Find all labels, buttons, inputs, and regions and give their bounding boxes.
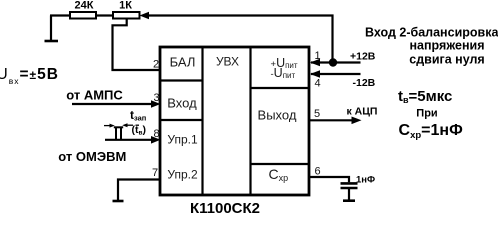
svg-text:БАЛ: БАЛ (170, 55, 196, 70)
svg-text:Uвх=±5В: Uвх=±5В (0, 66, 59, 86)
IC U1 К1100СК2 outline (160, 47, 309, 195)
svg-text:-12В: -12В (353, 77, 376, 89)
svg-text:от АМПС: от АМПС (66, 88, 123, 103)
IC divider: Вход / Упр (160, 119, 203, 121)
IC divider: Uпит / Выход (251, 87, 310, 89)
svg-text:1нФ: 1нФ (356, 174, 375, 185)
svg-text:К1100СК2: К1100СК2 (190, 200, 260, 216)
svg-text:При: При (416, 108, 437, 120)
arrowhead into pin 4 (310, 70, 320, 78)
IC divider: left column (201, 47, 203, 195)
svg-text:напряжения: напряжения (410, 38, 485, 52)
pulse width marker arrows (104, 123, 139, 127)
wire: RP1 wiper to +Uпит junction (top rail) (148, 16, 333, 63)
svg-text:4: 4 (314, 78, 320, 90)
pulse waveform symbol (114, 127, 123, 140)
wire: pin 7 to ground (118, 180, 160, 201)
svg-text:24К: 24К (75, 0, 94, 12)
wire: pin 3 input from АМПС (72, 103, 153, 105)
wire: R1 to potentiometer RP1 (96, 14, 113, 16)
svg-text:Упр.2: Упр.2 (167, 168, 198, 182)
ground GND3 (capacitor) (343, 199, 355, 202)
svg-text:к АЦП: к АЦП (347, 106, 378, 118)
ground GND1 (top-left) (45, 16, 59, 42)
svg-text:2: 2 (153, 59, 159, 71)
svg-text:от ОМЭВМ: от ОМЭВМ (58, 149, 126, 164)
ground GND2 (pin 7) (113, 200, 124, 203)
svg-text:Упр.1: Упр.1 (167, 133, 198, 147)
IC divider: Выход / Схр (251, 163, 310, 165)
arrowhead into pin 8 (151, 136, 161, 144)
capacitor C1 1нФ (341, 183, 358, 200)
svg-text:6: 6 (314, 166, 320, 178)
svg-text:Схр=1нФ: Схр=1нФ (399, 122, 464, 141)
wire: pin 1 +12V supply (311, 61, 361, 63)
svg-text:7: 7 (152, 167, 158, 179)
resistor R1 24К (70, 12, 96, 19)
wire: pin 8 input from ОМЭВМ (105, 139, 153, 141)
wire: pin 5 output to ADC (309, 119, 353, 121)
potentiometer RP1 1К (113, 12, 140, 19)
wire: GND1 to resistor R1 (50, 14, 70, 16)
svg-text:УВХ: УВХ (216, 55, 239, 69)
wire: pin 6 to hold capacitor (309, 177, 349, 182)
arrowhead to АЦП (352, 117, 362, 125)
IC divider: БАЛ / Вход (160, 79, 203, 81)
svg-text:(tв): (tв) (132, 124, 147, 137)
svg-text:+12В: +12В (350, 50, 376, 62)
svg-text:сдвига нуля: сдвига нуля (409, 53, 484, 67)
svg-text:tзап: tзап (130, 108, 146, 123)
arrowhead into pin 1 (310, 59, 320, 67)
arrowhead into pin 3 (151, 100, 161, 108)
junction node (+12V rail) (329, 58, 337, 66)
svg-text:Вход: Вход (167, 96, 197, 111)
wire: RP1 bottom tap to pin 2 (113, 19, 161, 71)
svg-text:tв=5мкс: tв=5мкс (398, 88, 452, 105)
IC divider: right column (249, 47, 251, 195)
svg-text:1К: 1К (119, 0, 132, 12)
wire: pin 4 -12V supply (311, 73, 361, 75)
wiper arrow of RP1 (140, 12, 150, 19)
svg-text:5: 5 (314, 108, 320, 120)
svg-text:Выход: Выход (258, 108, 297, 123)
